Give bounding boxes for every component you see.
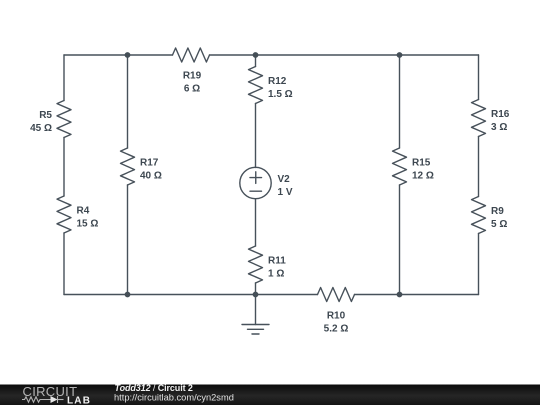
svg-text:40 Ω: 40 Ω — [140, 171, 162, 182]
label R9 value — [491, 206, 507, 230]
wire right column middle — [478, 137, 480, 197]
svg-text:R4: R4 — [77, 206, 90, 217]
resistor R10 — [318, 288, 355, 302]
svg-text:R12: R12 — [268, 76, 287, 87]
wire column2 upper — [127, 55, 129, 148]
label R12 value — [268, 76, 293, 100]
svg-text:http://circuitlab.com/cyn2smd: http://circuitlab.com/cyn2smd — [114, 393, 234, 403]
resistor R17 — [121, 148, 135, 185]
resistor R11 — [249, 246, 263, 283]
resistor R19 — [173, 48, 210, 62]
resistor R12 — [249, 67, 263, 104]
svg-text:12 Ω: 12 Ω — [412, 171, 434, 182]
svg-text:R16: R16 — [491, 109, 510, 120]
node bottom column2 — [125, 292, 131, 298]
svg-text:R19: R19 — [183, 71, 202, 82]
node bottom column4 — [397, 292, 403, 298]
svg-text:6 Ω: 6 Ω — [184, 84, 200, 95]
svg-text:R5: R5 — [39, 110, 52, 121]
resistor R5 — [57, 101, 71, 138]
label R15 value — [412, 158, 434, 182]
svg-text:R11: R11 — [268, 256, 286, 267]
wire column4 lower — [399, 185, 401, 295]
svg-text:R17: R17 — [140, 158, 159, 169]
wire left column lower — [63, 233, 65, 295]
label R5 value — [30, 110, 52, 134]
label R19 value — [183, 71, 202, 95]
svg-text:45 Ω: 45 Ω — [30, 123, 52, 134]
label R16 value — [491, 109, 510, 133]
svg-text:3 Ω: 3 Ω — [491, 122, 507, 133]
wire middle column R12 to V2 — [255, 104, 257, 168]
voltage source V2 — [240, 167, 271, 198]
wire left column middle — [63, 138, 65, 197]
svg-text:1 Ω: 1 Ω — [268, 269, 284, 280]
wire bottom right segment — [355, 294, 479, 296]
svg-text:LAB: LAB — [67, 396, 91, 405]
node top middle — [253, 52, 259, 58]
wire right column upper — [478, 55, 480, 100]
resistor R16 — [472, 100, 486, 137]
svg-text:V2: V2 — [278, 174, 291, 185]
wire top left segment — [64, 54, 173, 56]
resistor R15 — [393, 148, 407, 185]
svg-text:1.5 Ω: 1.5 Ω — [268, 89, 293, 100]
wire bottom left segment — [64, 294, 318, 296]
resistor R9 — [472, 197, 486, 234]
label V2 value — [278, 174, 293, 198]
node top column4 — [397, 52, 403, 58]
wire middle column above R12 — [255, 55, 257, 67]
svg-text:R15: R15 — [412, 158, 431, 169]
wire right column lower — [478, 234, 480, 295]
ground — [242, 295, 269, 335]
wire left column upper — [63, 55, 65, 101]
node bottom middle — [253, 292, 259, 298]
wire column4 upper — [399, 55, 401, 148]
label R4 value — [77, 206, 99, 230]
label R11 value — [268, 256, 286, 280]
svg-text:5.2 Ω: 5.2 Ω — [324, 323, 349, 334]
CircuitLab logo resistor-diode glyph — [22, 396, 64, 403]
svg-text:15 Ω: 15 Ω — [77, 219, 99, 230]
label R10 value — [324, 310, 349, 334]
footer bar — [0, 385, 540, 405]
label R17 value — [140, 158, 162, 182]
svg-text:R10: R10 — [327, 310, 346, 321]
wire middle column V2 to R11 — [255, 199, 257, 246]
svg-text:R9: R9 — [491, 206, 504, 217]
wire column2 lower — [127, 185, 129, 295]
node top column2 — [125, 52, 131, 58]
svg-text:1 V: 1 V — [278, 187, 293, 198]
wire middle column below R11 — [255, 283, 257, 295]
svg-text:Todd312 / Circuit 2: Todd312 / Circuit 2 — [115, 383, 193, 393]
svg-text:5 Ω: 5 Ω — [491, 219, 507, 230]
wire top right segment — [210, 54, 479, 56]
resistor R4 — [57, 196, 71, 233]
